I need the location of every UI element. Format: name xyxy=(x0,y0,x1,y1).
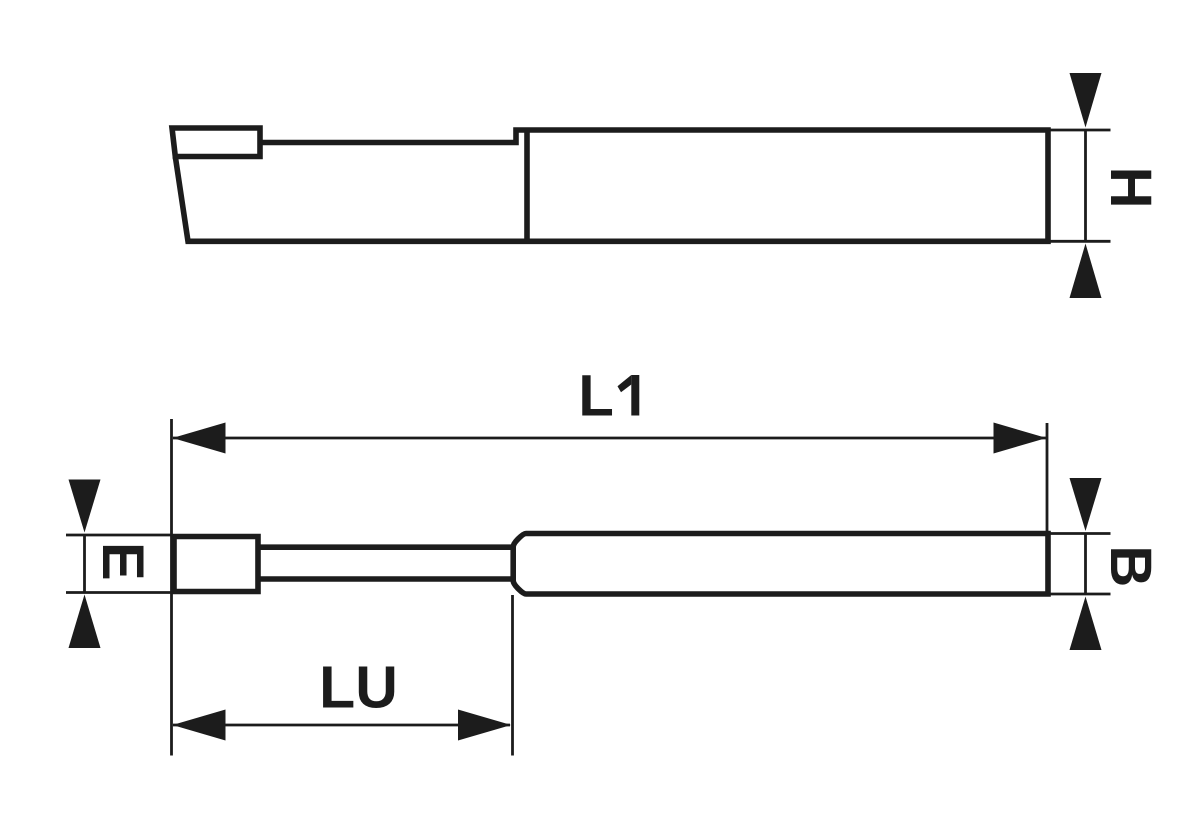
B arrow top xyxy=(1070,478,1102,531)
svg-text:H: H xyxy=(1098,167,1163,209)
svg-text:B: B xyxy=(1098,545,1163,587)
bottom view: neck bottom line xyxy=(258,576,514,582)
bottom view: neck top line xyxy=(258,544,514,550)
E dim tick top xyxy=(66,534,172,537)
B dim tick top xyxy=(1048,532,1111,535)
L1 dimension line xyxy=(173,437,1046,440)
top view: shank divider line xyxy=(524,130,530,241)
E dimension line xyxy=(83,535,86,593)
H arrow bottom xyxy=(1070,244,1102,299)
svg-text:E: E xyxy=(90,542,155,581)
LU arrow right xyxy=(458,710,511,741)
LU right extension line xyxy=(511,595,514,756)
LU arrow left xyxy=(173,710,226,741)
label L1: digit 1 flag xyxy=(618,375,632,392)
H dimension line xyxy=(1084,130,1087,241)
L1 arrow left xyxy=(173,423,226,454)
B dim tick bottom xyxy=(1048,593,1111,596)
H dim tick top xyxy=(1048,129,1111,132)
H dim tick bottom xyxy=(1048,240,1111,243)
svg-text:LU: LU xyxy=(319,655,398,721)
L1 left extension line xyxy=(170,419,173,756)
B arrow bottom xyxy=(1070,597,1102,651)
bottom view: shank outline with flare xyxy=(513,534,1048,595)
B dimension line xyxy=(1084,534,1087,595)
top view: insert tip rectangle xyxy=(172,128,260,157)
top view: tool body outline xyxy=(175,130,1048,241)
L1 arrow right xyxy=(994,423,1047,454)
bottom view: head rectangle xyxy=(174,537,258,592)
L1 right extension line xyxy=(1046,423,1049,532)
label L1: digit 1 stem xyxy=(631,375,639,416)
E arrow bottom xyxy=(69,595,101,649)
svg-text:L: L xyxy=(578,364,613,429)
E dim tick bottom xyxy=(66,591,172,594)
E arrow top xyxy=(69,480,101,533)
H arrow top xyxy=(1070,73,1102,128)
LU dimension line xyxy=(173,724,510,727)
